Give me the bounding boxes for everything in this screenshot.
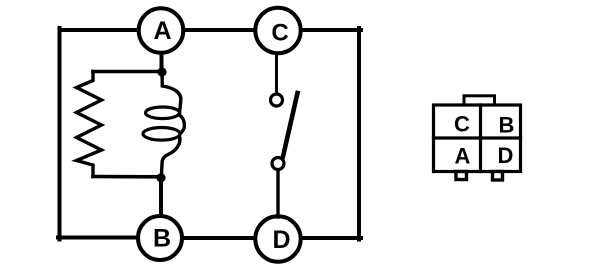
node D (terminal circle) [255, 216, 300, 261]
connector bottom pin 1 [456, 172, 467, 180]
node B (terminal circle) [138, 216, 182, 260]
svg-text:C: C [454, 111, 470, 136]
wire: bottom junction down to node B [159, 178, 163, 216]
wire: node B to node D [183, 236, 255, 240]
connector bottom pin 2 [493, 172, 503, 181]
switch S1 lower contact [272, 158, 284, 170]
svg-text:D: D [498, 143, 514, 168]
resistor R1 (zigzag) [77, 72, 102, 177]
connector body (4-pin housing) [434, 105, 521, 172]
junction dot (top, node between R and L) [157, 67, 166, 76]
wire: node C to right rail [301, 28, 361, 32]
wire: top-left segment from left rail to node A [60, 28, 139, 32]
node C (terminal circle) [255, 8, 300, 53]
wire: left rail to node B (bottom-left) [58, 236, 137, 240]
wire: switch lower contact down to node D [276, 170, 279, 217]
wire: node A down to top junction [160, 53, 164, 72]
wire: left vertical rail [58, 28, 62, 240]
wire: right vertical rail [357, 28, 361, 240]
svg-text:A: A [153, 17, 171, 45]
connector divider vertical [479, 105, 482, 172]
junction dot (bottom, node between R and L) [156, 173, 165, 182]
node A (terminal circle) [139, 8, 184, 53]
svg-text:D: D [272, 226, 290, 254]
wire: node A to node C [184, 28, 255, 32]
wire: top junction left to resistor top [93, 70, 162, 74]
wire: node D to right rail (bottom-right) [302, 236, 361, 240]
connector divider horizontal [434, 136, 521, 139]
inductor L1 (coil loops) [162, 72, 181, 113]
switch S1 blade [283, 93, 298, 157]
wire: resistor bottom to bottom junction [93, 175, 161, 179]
switch S1 upper contact [271, 94, 283, 106]
wire: node C down to switch upper contact [275, 53, 278, 94]
connector top tab [464, 96, 495, 105]
svg-text:B: B [499, 113, 515, 138]
svg-text:B: B [153, 225, 171, 253]
svg-text:C: C [271, 20, 288, 47]
svg-text:A: A [455, 144, 471, 169]
